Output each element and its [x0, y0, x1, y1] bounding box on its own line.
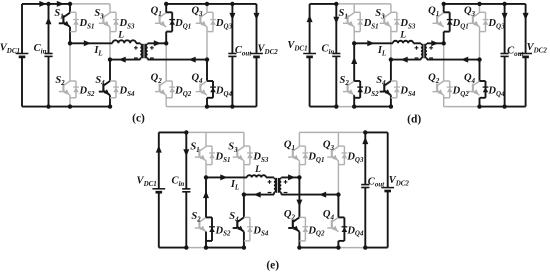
- transistor S4 (d): [385, 81, 391, 85]
- wire: top rail VDC1 to Cin (e): [159, 131, 187, 133]
- wire: leg1 midpoint to DS2 (e): [205, 177, 207, 217]
- transformer core (d): [422, 44, 424, 59]
- wire: secondary top to leg3 (c): [148, 42, 167, 44]
- transformer secondary winding (d): [426, 42, 428, 45]
- node: bottom rail junctions right (c): [205, 104, 209, 108]
- wire: S1 emitter to leg1 midpoint (c): [69, 27, 71, 43]
- diode DS4 (e): [244, 216, 250, 218]
- wire: Q1 emitter to leg3 midpoint (e): [298, 165, 300, 178]
- wire: secondary bottom to leg4 (c): [148, 59, 207, 61]
- current arrow on top rail 1 (c): [39, 1, 46, 7]
- node: bottom rail junctions right (d): [477, 104, 481, 108]
- wire: bottom rail VDC1 to Cin (d): [310, 106, 337, 108]
- diode DQ2 (e): [299, 216, 305, 218]
- current arrow on secondary bottom (left) (d): [461, 57, 468, 63]
- wire: leg4 midpoint to Q4 collector (e): [337, 195, 339, 218]
- diode DQ4 (e): [338, 216, 344, 218]
- wire: Cin column (d): [335, 4, 337, 54]
- wire: S1 emitter to leg1 midpoint (d): [353, 27, 355, 43]
- wire: leg1 midpoint to S2 collector (c): [69, 43, 71, 81]
- svg-text:L: L: [117, 31, 124, 41]
- wire: leg3 midpoint to Q2 collector (c): [165, 43, 167, 81]
- diode DS3 (e): [244, 145, 250, 147]
- node: leg4 midpoint (e): [336, 192, 340, 196]
- current arrow on VDC1 column (up) (d): [307, 15, 313, 22]
- diode DQ2 (d): [444, 80, 450, 82]
- transistor S4 (e): [238, 217, 244, 221]
- diode DQ3 (c): [207, 11, 213, 13]
- transistor S2 (d): [348, 81, 354, 85]
- wire: S3 emitter to leg2 midpoint (c): [109, 27, 111, 60]
- battery VDC1 (c): [16, 53, 29, 55]
- transformer polarity marks (e): [268, 181, 272, 183]
- wire: secondary bottom to leg4 (d): [427, 59, 480, 61]
- inductor L (d): [393, 41, 413, 44]
- current arrow on VDC1 column (up) (e): [156, 145, 162, 152]
- transistor S4 (c): [104, 81, 110, 85]
- node: leg1 midpoint (e): [204, 175, 208, 179]
- node: leg2 midpoint (c): [108, 57, 112, 61]
- wire: Q2 emitter to bottom rail (d): [443, 95, 445, 106]
- wire: primary return to leg2 midpoint (e): [244, 194, 274, 196]
- wire: bottom rail leg1 to leg2 (d): [354, 106, 391, 108]
- transistor S1 (c): [64, 13, 70, 17]
- wire: S2 emitter to bottom rail (c): [69, 95, 71, 106]
- wire: top rail gray segment Cin-leg2 (e): [186, 131, 244, 133]
- wire: leg2 midpoint to S4 collector (c): [109, 60, 111, 81]
- wire: leg3 midpoint to Q2 collector (e): [298, 177, 300, 217]
- transistor S1 (d): [348, 13, 354, 17]
- wire: bottom rail leg4 to VDC2 (d): [480, 106, 526, 108]
- current arrow on secondary top (right) (d): [431, 40, 438, 46]
- wire: S1 collector drop (c): [69, 4, 71, 13]
- inductor L (e): [247, 175, 266, 177]
- node: bottom rail junctions left (e): [184, 245, 188, 249]
- wire: Cout column (e): [364, 132, 366, 184]
- battery VDC1 (e): [152, 188, 165, 190]
- svg-text:(d): (d): [407, 114, 421, 126]
- transistor S3 (c): [104, 13, 110, 17]
- current arrow on Cout column (down) (d): [502, 13, 508, 20]
- wire: top rail Cout to VDC2 (e): [365, 131, 387, 133]
- svg-text:(c): (c): [132, 113, 145, 125]
- wire: secondary top to leg3 (d): [427, 42, 444, 44]
- wire: VDC1 column (c): [21, 4, 23, 54]
- node: top rail junctions right (c): [164, 2, 168, 6]
- node: leg2 midpoint (d): [389, 57, 393, 61]
- battery VDC2 (d): [519, 53, 532, 55]
- node: top rail junctions (e): [184, 130, 188, 134]
- node: leg4 midpoint (d): [477, 57, 481, 61]
- diode DQ1 (c): [166, 11, 172, 13]
- wire: S3 collector drop (d): [390, 4, 392, 13]
- diode DS3 (c): [110, 11, 116, 13]
- svg-text:(e): (e): [266, 259, 279, 271]
- transistor Q2 (e): [293, 217, 299, 221]
- wire: Q3 emitter to leg4 midpoint (c): [206, 27, 208, 60]
- node: bottom rail junctions left (c): [46, 104, 50, 108]
- capacitor Cout (d): [501, 53, 509, 55]
- current arrow on primary return (left) (d): [401, 57, 408, 63]
- transistor Q2 (d): [438, 81, 444, 85]
- wire: Cin column (c): [48, 4, 50, 54]
- node: top rail junctions (c): [46, 2, 50, 6]
- wire: bottom rail leg1 to leg2 (e): [206, 247, 244, 249]
- wire: Q4 emitter to bottom rail (e): [337, 241, 339, 248]
- node: bottom rail junctions right (e): [297, 245, 301, 249]
- wire: VDC2 column (d): [525, 4, 527, 54]
- transistor Q1 (e): [293, 147, 299, 151]
- wire: S3 emitter to leg2 midpoint (e): [243, 161, 245, 195]
- wire: bottom rail gray Cin to leg1 (d): [336, 106, 354, 108]
- node: leg3 midpoint (d): [442, 41, 446, 45]
- wire: S1 emitter to leg1 midpoint (e): [205, 161, 207, 178]
- current arrow on leg1 (up) (e): [203, 191, 209, 198]
- battery VDC1 (d): [303, 53, 316, 55]
- node: bottom rail junctions left (d): [334, 104, 338, 108]
- capacitor Cout (e): [361, 184, 369, 186]
- transistor S2 (c): [64, 81, 70, 85]
- wire: Q3 collector drop (c): [206, 4, 208, 13]
- node: leg3 midpoint (c): [164, 41, 168, 45]
- svg-text:L: L: [399, 31, 406, 41]
- wire: leg2 midpoint to S4 collector (d): [390, 60, 392, 81]
- wire: leg3 midpoint to Q2 collector (d): [443, 43, 445, 81]
- wire: S1 collector drop (e): [205, 132, 207, 146]
- current arrow on secondary bottom (left) (e): [319, 192, 326, 198]
- wire: leg1 midpoint to inductor, current iL (d): [354, 42, 393, 44]
- current arrow on Cin column (down) (e): [183, 149, 189, 156]
- diode DQ3 (e): [338, 145, 344, 147]
- wire: S2 emitter to bottom rail (e): [205, 232, 207, 248]
- transformer primary winding (c): [139, 42, 141, 45]
- wire: Q2 emitter to bottom rail (c): [165, 95, 167, 106]
- wire: secondary bottom to leg4 (e): [281, 194, 338, 196]
- wire: Q1 emitter to leg3 midpoint (d): [443, 32, 445, 44]
- wire: top rail VDC1 to leg1 (c): [22, 3, 70, 5]
- transistor Q3 (e): [332, 147, 338, 151]
- current arrow iL (e): [220, 174, 227, 180]
- transistor Q1 (c): [160, 13, 166, 17]
- transistor Q4 (e): [332, 217, 338, 221]
- diode DQ1 (e): [299, 145, 305, 147]
- diode DS1 (e): [206, 145, 212, 147]
- battery VDC2 (e): [381, 187, 394, 189]
- wire: S3 collector drop (c): [109, 4, 111, 13]
- current arrow on leg3 (down) (e): [296, 200, 302, 207]
- wire: inductor to transformer primary (c): [136, 42, 140, 44]
- wire: bottom rail VDC1 to Cin (e): [159, 247, 187, 249]
- transformer core (e): [276, 178, 278, 193]
- wire: inductor to transformer primary (d): [413, 42, 421, 44]
- wire: Q1 emitter to leg3 midpoint (c): [165, 32, 167, 44]
- current arrow on top rail 2 (c): [57, 1, 64, 7]
- current arrow on Cin column (down) (d): [333, 17, 339, 24]
- wire: S1 collector drop (d): [353, 4, 355, 13]
- wire: leg4 midpoint to Q4 collector (d): [479, 60, 481, 81]
- diode DS3 (d): [391, 11, 397, 13]
- current arrow on VDC2 column (down) (c): [254, 13, 260, 20]
- wire: Q2 emitter to bottom rail (e): [298, 232, 300, 248]
- wire: secondary top to leg3 (e): [281, 176, 299, 178]
- transistor S3 (d): [385, 13, 391, 17]
- transformer polarity marks (d): [415, 47, 419, 49]
- node: top rail junctions right (e): [363, 130, 367, 134]
- transistor Q4 (c): [201, 81, 207, 85]
- inductor L (c): [113, 40, 137, 43]
- diode DQ3 (d): [480, 11, 486, 13]
- wire: Cout column (c): [231, 4, 233, 54]
- capacitor Cin (e): [182, 188, 190, 190]
- wire: Cin column (e): [185, 132, 187, 189]
- wire: S3 emitter to leg2 midpoint (d): [390, 27, 392, 60]
- diode DQ4 (d): [480, 80, 486, 82]
- wire: S4 emitter to bottom rail (e): [243, 232, 245, 248]
- wire: primary return to leg2 midpoint (c): [110, 59, 140, 61]
- node: leg2 midpoint (e): [242, 192, 246, 196]
- current arrow on secondary top (right) (c): [154, 40, 161, 46]
- wire: S3 collector drop (e): [243, 132, 245, 146]
- wire: top rail leg3 to VDC2 (d): [444, 3, 526, 5]
- transistor Q3 (c): [201, 13, 207, 17]
- wire: top rail gray segment Cin-leg2 (d): [336, 3, 391, 5]
- wire: leg2 midpoint to S4 collector (e): [243, 195, 245, 218]
- wire: Q3 emitter to leg4 midpoint (d): [479, 27, 481, 60]
- wire: VDC1 column (e): [158, 132, 160, 188]
- transformer primary winding (d): [420, 42, 422, 45]
- current arrow iL (d): [367, 40, 374, 46]
- wire: bottom rail leg4 to VDC2 (c): [207, 106, 257, 108]
- wire: top rail leg3 to VDC2 (c): [166, 3, 256, 5]
- wire: Q3 emitter to leg4 midpoint (e): [337, 161, 339, 195]
- capacitor Cin (d): [332, 53, 340, 55]
- current arrow on secondary bottom (left) (c): [189, 57, 196, 63]
- capacitor Cout (c): [228, 53, 236, 55]
- wire: bottom rail gray leg4 to Cout (e): [338, 247, 365, 249]
- wire: bottom rail leg3 to leg4 (e): [299, 247, 338, 249]
- diode DS1 (d): [354, 11, 360, 13]
- wire: VDC1 column (d): [309, 4, 311, 54]
- transformer primary winding (e): [273, 176, 275, 179]
- svg-text:L: L: [254, 165, 261, 175]
- wire: bottom rail gray leg3 to leg4 (c): [166, 106, 207, 108]
- node: leg1 midpoint (d): [352, 41, 356, 45]
- battery VDC2 (c): [250, 53, 263, 55]
- transformer core (c): [142, 44, 144, 59]
- wire: bottom rail VDC1 to leg2 (c): [22, 106, 110, 108]
- node: leg3 midpoint (e): [297, 175, 301, 179]
- wire: S2 emitter to bottom rail (d): [353, 95, 355, 106]
- wire: VDC2 column (c): [256, 4, 258, 54]
- current arrow on Cout column (up) (e): [362, 137, 368, 144]
- capacitor Cin (c): [44, 53, 52, 55]
- wire: top rail gray segment leg1-leg2 (c): [70, 3, 110, 5]
- node: leg4 midpoint (c): [205, 57, 209, 61]
- wire: Q3 collector drop (d): [479, 4, 481, 13]
- transistor Q2 (c): [160, 81, 166, 85]
- wire: Q1 collector drop (d): [443, 4, 445, 13]
- diode DS4 (d): [391, 80, 397, 82]
- wire: Q1 collector drop (e): [298, 132, 300, 146]
- wire: bottom rail gray Cin to leg1 (e): [186, 247, 206, 249]
- wire: leg1 midpoint to inductor, current iL (e): [206, 176, 247, 178]
- wire: primary return to leg2 midpoint (d): [391, 59, 421, 61]
- current arrow on primary return (left) (e): [254, 192, 261, 198]
- current arrow iL (c): [84, 40, 91, 46]
- transformer polarity marks (c): [134, 47, 138, 49]
- diode DQ2 (c): [166, 80, 172, 82]
- transformer secondary winding (c): [147, 42, 149, 45]
- wire: leg3 upper gray segment (e): [298, 161, 300, 178]
- diode DS2 (d): [354, 80, 360, 82]
- wire: top rail gray leg3 to Cout (e): [299, 131, 365, 133]
- current arrow on Cout column (down) (c): [229, 13, 235, 20]
- wire: S4 emitter to bottom rail (d): [390, 95, 392, 106]
- diode DQ4 (c): [207, 80, 213, 82]
- transistor S2 (e): [200, 217, 206, 221]
- diode DS4 (c): [110, 80, 116, 82]
- node: top rail junctions (d): [334, 2, 338, 6]
- current arrow on VDC2 column (down) (d): [523, 13, 529, 20]
- current arrow on secondary top (right) (e): [288, 174, 295, 180]
- diode DQ1 (d): [444, 11, 450, 13]
- diode DS2 (c): [70, 80, 76, 82]
- node: leg1 midpoint (c): [68, 41, 72, 45]
- transistor S1 (e): [200, 147, 206, 151]
- wire: bottom rail Cout to VDC2 (e): [365, 247, 387, 249]
- wire: leg1 midpoint to DS2 (d): [353, 43, 355, 81]
- transistor Q3 (d): [474, 13, 480, 17]
- wire: leg1 midpoint to inductor, current iL (c): [70, 42, 113, 44]
- current arrow on primary return (left) (c): [119, 57, 126, 63]
- transformer secondary winding (e): [280, 176, 282, 179]
- wire: S4 emitter to bottom rail (c): [109, 95, 111, 106]
- wire: VDC2 column (e): [387, 132, 389, 187]
- transistor S3 (e): [238, 147, 244, 151]
- diode DS1 (c): [70, 11, 76, 13]
- wire: top rail VDC1 to Cin (d): [310, 3, 337, 5]
- transistor Q4 (d): [474, 81, 480, 85]
- wire: Q4 emitter to bottom rail (c): [206, 98, 208, 107]
- wire: Q3 collector drop (e): [337, 132, 339, 146]
- wire: Q1 collector drop (c): [165, 4, 167, 13]
- wire: inductor to transformer primary (e): [266, 176, 274, 178]
- wire: Cout column (d): [504, 4, 506, 54]
- wire: Q4 emitter to bottom rail (d): [479, 98, 481, 107]
- current arrow on Cin column (up) (c): [46, 17, 52, 24]
- diode DS2 (e): [206, 216, 212, 218]
- wire: bottom rail gray leg3 to leg4 (d): [444, 106, 480, 108]
- node: top rail junctions right (d): [442, 2, 446, 6]
- transistor Q1 (d): [438, 13, 444, 17]
- wire: leg4 midpoint to Q4 collector (c): [206, 60, 208, 81]
- current arrow on leg1 (up) (d): [351, 57, 357, 64]
